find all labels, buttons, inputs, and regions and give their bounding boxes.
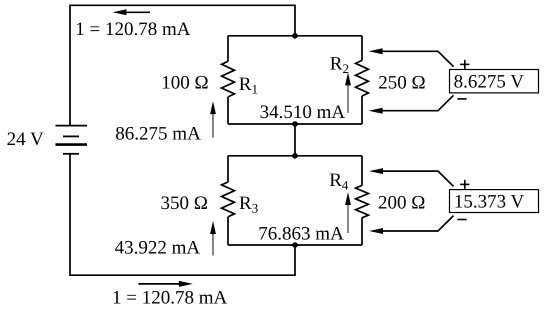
svg-text:R2: R2 [330, 54, 349, 77]
svg-text:34.510 mA: 34.510 mA [260, 102, 346, 123]
svg-text:R3: R3 [239, 193, 258, 216]
svg-text:350 Ω: 350 Ω [161, 193, 208, 214]
svg-text:200 Ω: 200 Ω [378, 193, 425, 214]
svg-text:15.373 V: 15.373 V [454, 191, 525, 212]
svg-text:76.863 mA: 76.863 mA [258, 224, 344, 245]
svg-text:R4: R4 [329, 170, 349, 193]
svg-text:24 V: 24 V [7, 129, 44, 150]
svg-text:1 = 120.78 mA: 1 = 120.78 mA [112, 287, 227, 308]
svg-text:R1: R1 [239, 74, 258, 97]
svg-text:1 = 120.78 mA: 1 = 120.78 mA [75, 19, 190, 40]
svg-text:86.275 mA: 86.275 mA [115, 124, 201, 145]
svg-text:100 Ω: 100 Ω [161, 73, 208, 94]
svg-text:250 Ω: 250 Ω [378, 72, 425, 93]
svg-text:43.922 mA: 43.922 mA [115, 237, 201, 258]
svg-text:8.6275 V: 8.6275 V [454, 71, 525, 92]
